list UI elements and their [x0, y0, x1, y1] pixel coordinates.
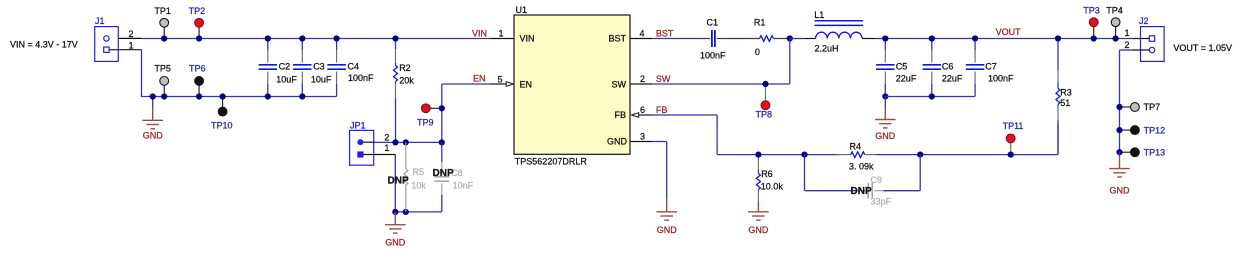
svg-text:C9: C9 [871, 175, 883, 185]
junction | C6 top [929, 35, 935, 41]
test point TP9 [417, 104, 442, 128]
ground | output sense GND [1109, 152, 1130, 195]
svg-text:GND: GND [385, 238, 406, 248]
op-amp U1 TPS562207DRLR body [514, 5, 630, 166]
capacitor C5 22uF [876, 39, 917, 97]
svg-text:2: 2 [129, 29, 134, 39]
svg-text:4: 4 [640, 28, 645, 38]
svg-text:R5: R5 [413, 167, 425, 177]
junction | TP1 on VIN rail [161, 35, 167, 41]
junction | TP3 on VOUT rail [1091, 35, 1097, 41]
junction | R6 top on FB net [755, 152, 761, 158]
svg-text:SW: SW [612, 79, 627, 89]
svg-text:0: 0 [755, 47, 760, 57]
wire | VOUT rail from L1 to J2 [885, 38, 1133, 40]
svg-text:10k: 10k [411, 181, 426, 191]
resistor R2 20k (VIN to EN pull-up) [394, 39, 415, 143]
junction | C2 bottom [265, 93, 271, 99]
svg-text:1: 1 [384, 143, 389, 153]
svg-text:1: 1 [1125, 28, 1130, 38]
svg-text:DNP: DNP [851, 186, 872, 197]
capacitor C7 100nF [966, 39, 1014, 97]
junction | C8 top / EN riser corner [439, 139, 445, 145]
svg-text:22uF: 22uF [942, 73, 963, 83]
junction | TP11 on FB net [1008, 152, 1014, 158]
wire | JP1 pin 1 to GND [363, 155, 395, 212]
svg-text:GND: GND [607, 137, 628, 147]
test point TP12 [1120, 125, 1166, 135]
svg-text:2: 2 [640, 74, 645, 84]
svg-text:GND: GND [748, 225, 769, 235]
junction | R2 bottom on EN wire [392, 139, 398, 145]
junction | C7 top [972, 35, 978, 41]
test point TP4 [1106, 5, 1123, 38]
svg-text:1: 1 [129, 41, 134, 51]
junction | TP6 on GND rail [196, 93, 202, 99]
svg-text:TP2: TP2 [189, 6, 206, 16]
svg-text:C4: C4 [348, 62, 360, 72]
svg-text:GND: GND [657, 225, 678, 235]
svg-text:5: 5 [498, 74, 503, 84]
svg-text:22uF: 22uF [896, 73, 917, 83]
capacitor C9 33pF DNP (parallel R4) [805, 155, 921, 207]
resistor R1 0 ohm [754, 17, 774, 56]
svg-text:JP1: JP1 [350, 121, 366, 131]
ground | input GND [142, 97, 163, 141]
svg-text:TPS562207DRLR: TPS562207DRLR [515, 157, 588, 167]
ground | JP1 / EN divider GND [385, 212, 406, 233]
svg-text:R4: R4 [850, 141, 862, 151]
test point TP11 [1003, 121, 1024, 155]
svg-text:TP9: TP9 [417, 118, 434, 128]
test point TP3 [1083, 5, 1100, 38]
svg-text:GND: GND [1110, 186, 1131, 196]
wire | VOUT rail into J2 pin 1 [1133, 38, 1149, 40]
junction | TP4 on VOUT rail [1113, 35, 1119, 41]
svg-text:TP4: TP4 [1106, 5, 1123, 15]
svg-text:TP12: TP12 [1144, 125, 1166, 135]
svg-text:20k: 20k [399, 75, 414, 85]
svg-text:TP10: TP10 [211, 121, 233, 131]
test point TP6 [189, 64, 206, 97]
test point TP10 [211, 97, 233, 131]
svg-text:BST: BST [608, 34, 626, 44]
svg-text:2: 2 [384, 133, 389, 143]
junction | TP10 on GND rail [220, 93, 226, 99]
wire | J2 pin 2 to sense riser [1120, 50, 1150, 152]
svg-text:2: 2 [1125, 40, 1130, 50]
svg-text:VIN: VIN [520, 34, 535, 44]
junction | R5 top on EN wire [403, 139, 409, 145]
svg-text:2.2uH: 2.2uH [815, 43, 839, 53]
ground | output cap GND [875, 97, 896, 142]
svg-text:TP11: TP11 [1003, 121, 1024, 131]
junction | TP7 on riser [1116, 104, 1122, 110]
svg-text:R2: R2 [399, 63, 411, 73]
svg-text:100nF: 100nF [988, 73, 1014, 83]
junction | TP5 on GND rail [161, 93, 167, 99]
wire | R1 to SW node [774, 38, 790, 40]
svg-text:3: 3 [640, 131, 645, 141]
test point TP13 [1120, 147, 1166, 157]
svg-text:TP13: TP13 [1144, 147, 1166, 157]
capacitor C1 100nF (bootstrap) [700, 17, 726, 60]
junction | C5 bottom / output GND [882, 93, 888, 99]
capacitor C8 10nF DNP [434, 142, 473, 212]
capacitor C4 100nF [327, 39, 374, 97]
wire | R4 to R3/TP11 node [876, 154, 1058, 156]
junction | C9 branch left [801, 152, 807, 158]
svg-text:TP7: TP7 [1144, 102, 1161, 112]
svg-text:EN: EN [520, 79, 533, 89]
test point TP2 [189, 6, 206, 39]
svg-text:DNP: DNP [433, 168, 454, 179]
svg-text:C6: C6 [942, 62, 954, 72]
svg-text:3. 09k: 3. 09k [849, 161, 874, 171]
junction | TP2 on VIN rail [196, 35, 202, 41]
junction | TP9 on EN riser [439, 105, 445, 111]
svg-text:VOUT = 1.05V: VOUT = 1.05V [1173, 43, 1232, 53]
svg-text:L1: L1 [814, 10, 824, 20]
wire | DNP bottom rail [395, 211, 442, 213]
svg-text:J1: J1 [95, 16, 105, 26]
junction | R3 top on VOUT rail [1055, 35, 1061, 41]
svg-text:C7: C7 [985, 62, 997, 72]
connector JP1 (EN jumper) [350, 121, 374, 166]
test point TP5 [154, 64, 171, 97]
wire | SW pin to SW node riser [630, 39, 790, 85]
svg-text:SW: SW [656, 74, 671, 84]
junction | C9 branch right [917, 152, 923, 158]
svg-text:GND: GND [143, 131, 164, 141]
svg-text:C5: C5 [896, 62, 908, 72]
svg-text:R3: R3 [1060, 87, 1072, 97]
junction | C5 top [882, 35, 888, 41]
pin arrow | FB input arrow at U1 [632, 113, 639, 118]
junction | R2 top on VIN rail [392, 35, 398, 41]
junction | C2 top [265, 35, 271, 41]
svg-text:TP3: TP3 [1083, 5, 1100, 15]
test point TP7 [1120, 102, 1161, 112]
capacitor C3 10uF [293, 39, 332, 97]
test point TP1 [154, 6, 171, 39]
svg-text:DNP: DNP [388, 175, 409, 186]
svg-text:C3: C3 [313, 62, 325, 72]
junction | TP12 on riser [1116, 127, 1122, 133]
resistor R3 51 (FB divider top) [1056, 39, 1072, 155]
ground | R6 GND [748, 201, 769, 220]
capacitor C6 22uF [923, 39, 963, 97]
wire | VIN top rail from J1 pin 2 to U1 VIN pin, y=38.5 [109, 37, 514, 39]
wire | C1 to R1 [717, 38, 760, 40]
junction | SW node at BST cap / L1 [787, 35, 793, 41]
wire | U1 GND pin 3 to GND [630, 142, 667, 200]
svg-text:U1: U1 [516, 5, 528, 15]
svg-text:VOUT: VOUT [996, 27, 1022, 37]
junction | GND stem on input rail [150, 93, 156, 99]
junction | C3 top [299, 35, 305, 41]
svg-text:100nF: 100nF [700, 51, 726, 61]
ground | U1 GND [656, 199, 677, 220]
wire | input GND rail y=96.5 [141, 96, 337, 98]
wire | J1 pin 1 to input GND rail [109, 50, 142, 97]
junction | TP13 on riser [1116, 149, 1122, 155]
junction | C6 bottom [929, 93, 935, 99]
svg-text:10.0k: 10.0k [761, 182, 784, 192]
svg-text:51: 51 [1060, 98, 1070, 108]
resistor R6 10.0k (FB divider bottom) [756, 158, 783, 202]
wire | BST pin to C1 [630, 38, 710, 40]
svg-text:VIN = 4.3V - 17V: VIN = 4.3V - 17V [10, 39, 78, 49]
wire | JP1 pin 2 to EN net [363, 141, 441, 143]
svg-text:VIN: VIN [472, 28, 487, 38]
svg-text:33pF: 33pF [871, 197, 892, 207]
svg-text:BST: BST [656, 28, 674, 38]
connector J1 (input) [95, 16, 119, 61]
junction | GND at JP1 riser [392, 209, 398, 215]
svg-text:TP8: TP8 [756, 110, 773, 120]
svg-text:R1: R1 [754, 17, 766, 27]
junction | C3 bottom [299, 93, 305, 99]
inductor L1 2.2uH [790, 10, 886, 53]
svg-text:1: 1 [499, 28, 504, 38]
pin arrow | EN input arrow at U1 [506, 82, 513, 87]
svg-text:10uF: 10uF [311, 74, 332, 84]
test point TP8 [756, 84, 773, 120]
svg-text:C2: C2 [279, 62, 291, 72]
svg-text:FB: FB [656, 105, 668, 115]
svg-text:C1: C1 [707, 17, 719, 27]
svg-text:6: 6 [640, 105, 645, 115]
connector J2 (output) [1139, 16, 1164, 62]
wire | FB pin to feedback net [639, 115, 839, 155]
junction | TP8 on SW wire [762, 81, 768, 87]
svg-text:TP1: TP1 [154, 6, 171, 16]
resistor R4 3.09k (feedforward) [837, 141, 877, 171]
svg-text:10nF: 10nF [453, 181, 474, 191]
wire | FB node corner up to R3 [1057, 124, 1059, 155]
svg-text:TP6: TP6 [189, 64, 206, 74]
resistor R5 10k DNP [404, 142, 427, 212]
svg-text:FB: FB [614, 110, 626, 120]
svg-text:J2: J2 [1139, 16, 1149, 26]
wire | EN net: riser and wire into U1 EN pin [442, 84, 506, 142]
svg-text:GND: GND [875, 131, 896, 141]
capacitor C2 10uF [259, 39, 298, 97]
junction | C4 top [334, 35, 340, 41]
wire | output GND rail [885, 96, 975, 98]
svg-text:R6: R6 [761, 169, 773, 179]
junction | R5 bottom [403, 209, 409, 215]
svg-text:10uF: 10uF [276, 74, 297, 84]
svg-text:EN: EN [473, 73, 486, 83]
svg-text:100nF: 100nF [348, 73, 374, 83]
svg-text:TP5: TP5 [154, 64, 171, 74]
